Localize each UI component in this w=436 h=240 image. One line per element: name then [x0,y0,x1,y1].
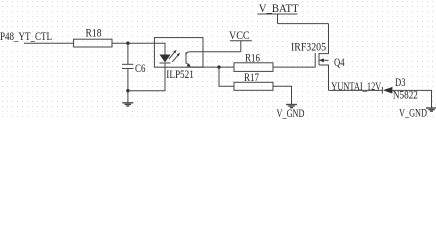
wire R18 to opto LED anode [112,43,165,54]
wire R17 to V_GND [273,86,292,104]
svg-text:VCC: VCC [229,30,250,42]
wire emitter to R16 [191,66,234,68]
svg-text:R18: R18 [86,28,102,40]
svg-text:V_GND: V_GND [277,108,305,120]
ground [122,103,133,106]
node P48_YT_CTL [0,31,52,43]
svg-text:C6: C6 [135,63,146,75]
resistor R18 [74,28,112,47]
svg-text:IRF3205: IRF3205 [291,42,326,54]
svg-text:V_GND: V_GND [399,107,427,119]
svg-text:R17: R17 [244,72,259,84]
wire collector to VCC [191,51,241,53]
capacitor C6 [122,63,146,75]
phototransistor of ILP521 [186,52,191,67]
svg-text:V_BATT: V_BATT [259,3,299,15]
junction node [126,42,129,45]
wire R16 to gate of Q4 [273,53,315,67]
ground V_GND mid [286,105,297,108]
resistor R17 [234,72,273,90]
junction node [217,65,220,68]
power VCC [229,30,252,52]
svg-text:P48_YT_CTL: P48_YT_CTL [0,31,52,43]
net V_GND label mid [277,108,305,120]
transistor MOSFET Q4 [291,24,345,91]
resistor R16 [234,53,273,72]
power V_BATT [258,3,299,23]
net YUNTAI_12V label + wire [329,81,383,93]
wire diode to V_GND right [392,90,431,107]
wire junction down to C6 [127,43,129,64]
diode D3 N5822 [382,77,418,102]
wire junction down to R17 [219,67,234,86]
wire junction to LED cathode [128,63,165,91]
svg-text:N5822: N5822 [393,90,418,102]
diode LED of ILP521 [160,55,171,64]
svg-text:D3: D3 [395,77,406,89]
wire V_BATT to drain [278,23,329,25]
LED emission arrows [169,50,180,62]
optocoupler ILP521 box [154,38,203,81]
wire C6 down to ground junction [127,69,129,103]
net V_GND label right [399,107,427,119]
ground V_GND right [426,108,436,111]
svg-text:R16: R16 [245,53,260,65]
svg-text:Q4: Q4 [334,57,345,69]
junction node [126,89,129,92]
wire input to R18 [24,42,74,44]
svg-text:YUNTAI_12V: YUNTAI_12V [331,81,381,93]
svg-text:ILP521: ILP521 [166,69,194,81]
